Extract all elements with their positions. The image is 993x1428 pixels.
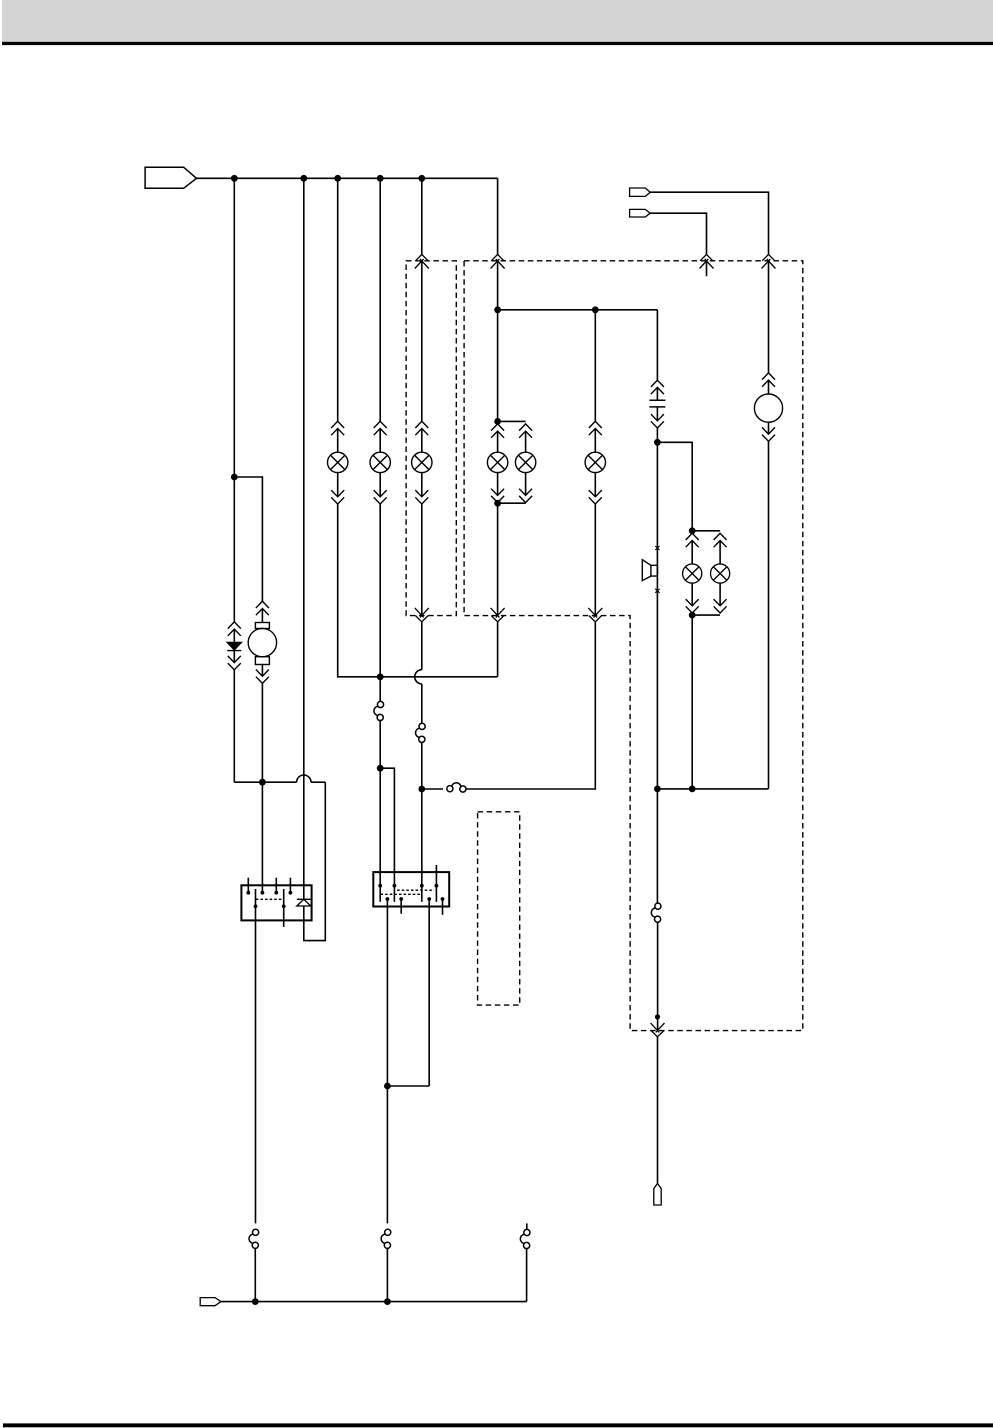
wire top bus bbox=[197, 177, 498, 179]
wire P3 stub bbox=[706, 261, 708, 276]
wire column v9 upper bbox=[656, 310, 658, 400]
wire column v12 bbox=[768, 261, 770, 394]
relay K2 pin dot 2 bbox=[393, 884, 397, 888]
wire column v4 lower bbox=[379, 473, 381, 677]
connector C-L5b bbox=[519, 489, 532, 503]
wire v5 lower bbox=[421, 473, 423, 670]
node bus-A bbox=[231, 175, 238, 182]
wire v4 to switch bbox=[379, 677, 381, 702]
wire v5 to switch bbox=[421, 684, 423, 723]
connector C-L7b bbox=[686, 599, 699, 613]
relay K1 pin dot a bbox=[246, 891, 250, 895]
connector C-J1a bbox=[651, 380, 664, 394]
relay K2 pin dot 4 bbox=[435, 884, 439, 888]
wire h7 join bbox=[387, 1085, 429, 1087]
wire v5 into harness bbox=[421, 261, 423, 452]
lamp L1 bbox=[328, 452, 348, 472]
relay K2 pin dot 7 bbox=[427, 897, 431, 901]
switch S4 bbox=[651, 903, 661, 922]
connector crossing C-L3 bbox=[415, 254, 429, 268]
harness dashed box left bbox=[406, 261, 456, 616]
wire S7 to bus bbox=[526, 1248, 528, 1301]
connector crossing C-V6 bbox=[491, 254, 505, 268]
wire branch to pair2 bbox=[657, 442, 692, 531]
connector crossing C-P3 bbox=[700, 254, 714, 268]
lamp L5 bbox=[515, 452, 535, 472]
node v9-dot bbox=[655, 1014, 660, 1019]
wire P2 feed bbox=[650, 192, 768, 254]
relay K1 pin dot c bbox=[274, 891, 278, 895]
node v9-branch bbox=[654, 439, 661, 446]
node v5-branch bbox=[418, 786, 425, 793]
node v4-branch bbox=[377, 765, 384, 772]
connector C-L4b bbox=[491, 489, 504, 503]
switch S1 bbox=[374, 701, 384, 720]
node pair1-top bbox=[494, 418, 501, 425]
connector crossing C-L3c bbox=[415, 608, 429, 622]
wire column v4 upper bbox=[379, 178, 381, 452]
connector C-L1a bbox=[331, 421, 344, 435]
diode D1 bbox=[227, 642, 241, 650]
connector lug P3 bbox=[630, 209, 651, 217]
wire h5-left end bbox=[466, 622, 595, 789]
connector crossing C-P2 bbox=[762, 254, 776, 268]
relay K2 coil dashed b bbox=[381, 893, 421, 895]
switch S5 bbox=[249, 1229, 259, 1248]
wire column v1 upper bbox=[233, 178, 235, 477]
wire column v3 upper bbox=[337, 178, 339, 452]
wire column v5 upper bbox=[421, 178, 423, 254]
connector C-L3b bbox=[415, 490, 428, 504]
lamp L6 bbox=[585, 452, 605, 472]
switch S2 bbox=[416, 723, 426, 742]
node pair2-bottom bbox=[689, 612, 696, 619]
node bus-C bbox=[334, 175, 341, 182]
relay K2 pin dot 3 bbox=[420, 884, 424, 888]
gauge G1 body bbox=[754, 394, 782, 422]
wire v5 switch to node bbox=[421, 742, 423, 789]
relay K1 coil dashed bbox=[256, 898, 283, 900]
connector joint J1 bars bbox=[649, 400, 665, 407]
wire v6 to h3 bbox=[497, 622, 499, 677]
connector C-L1b bbox=[331, 490, 344, 504]
wire pair2 down bbox=[691, 615, 693, 789]
lamp L4 bbox=[487, 452, 507, 472]
wire motor branch bbox=[234, 477, 262, 623]
connector C-D1b bbox=[228, 656, 241, 670]
wire column v8 upper bbox=[594, 310, 596, 452]
lamp L7 bbox=[683, 564, 702, 583]
connector C-L4a bbox=[491, 424, 504, 438]
wire pair1 top link bbox=[498, 420, 526, 422]
node h2-mid bbox=[592, 306, 599, 313]
relay K1 pin e wire bbox=[255, 889, 257, 1223]
wire column v1 lower bbox=[233, 477, 235, 782]
connector C-D1a bbox=[228, 622, 241, 636]
wire hop over h3 bbox=[415, 670, 422, 684]
relay K1 pin stub c bbox=[275, 878, 277, 893]
harness dashed box right (L-shape) bbox=[464, 261, 803, 1031]
wire pair2 right branch bbox=[719, 541, 721, 606]
wire v9 to switch bbox=[656, 789, 658, 903]
header rule bbox=[2, 42, 993, 45]
wire v9 mid bbox=[656, 407, 658, 442]
connector C-L6a bbox=[589, 421, 602, 435]
lamp L2 bbox=[370, 452, 390, 472]
speaker H1 bbox=[642, 560, 657, 581]
switch S3 bbox=[447, 783, 466, 792]
node motor-h4 bbox=[259, 779, 266, 786]
wire v12 lower bbox=[768, 422, 770, 789]
connector C-L7a bbox=[686, 533, 699, 547]
relay K1 pin f wire bbox=[283, 889, 285, 927]
connector C-M1a bbox=[256, 601, 269, 615]
motor M1 body bbox=[248, 628, 276, 656]
connector C-L3a bbox=[415, 421, 428, 435]
relay K1 pin dot b bbox=[261, 891, 265, 895]
wire relay loop bbox=[304, 782, 326, 940]
node bus-B bbox=[300, 175, 307, 182]
connector C-L6b bbox=[589, 490, 602, 504]
relay K2 pin 6 wire bbox=[400, 899, 402, 914]
wire h5-left start bbox=[422, 788, 443, 790]
harness dashed box small bbox=[478, 812, 520, 1005]
node pair1-bottom bbox=[494, 500, 501, 507]
wire v8 lower bbox=[594, 473, 596, 616]
diode D2 in relay K1 bbox=[297, 899, 311, 906]
node bus-E bbox=[418, 175, 425, 182]
node h7 bbox=[384, 1083, 391, 1090]
wire P3 feed bbox=[650, 213, 706, 254]
connector crossing C-V9 bbox=[651, 1023, 665, 1037]
wire S6 to bus bbox=[386, 1248, 388, 1302]
relay K1 pin dot f bbox=[282, 904, 286, 908]
wire pair2 bottom link bbox=[692, 614, 720, 616]
connector C-L8a bbox=[714, 533, 727, 547]
relay K2 pin dot 1 bbox=[378, 884, 382, 888]
node h5-v9 bbox=[654, 786, 661, 793]
wire motor to relay bbox=[261, 665, 263, 892]
node bus2-a bbox=[252, 1298, 259, 1305]
footer rule bbox=[3, 1423, 993, 1427]
connector lug P5 (ground) bbox=[200, 1298, 221, 1306]
connector C-J1b bbox=[651, 414, 664, 428]
wire pair1 bottom link bbox=[498, 502, 526, 504]
lamp L3 bbox=[412, 452, 432, 472]
node v1-tap bbox=[231, 474, 238, 481]
relay K2 pin 8 wire bbox=[442, 899, 444, 915]
relay K2 pin 5 wire bbox=[386, 899, 388, 1223]
connector C-G1b bbox=[762, 427, 775, 441]
switch S6 bbox=[381, 1229, 391, 1248]
relay K2 pin 7 wire bbox=[428, 899, 430, 1086]
relay K2 pin dot 8 bbox=[441, 897, 445, 901]
connector C-G1a bbox=[762, 373, 775, 387]
switch S7 stub bbox=[526, 1223, 528, 1229]
wire horizontal h4 left bbox=[234, 781, 296, 783]
connector mark star-b bbox=[655, 588, 659, 594]
motor M1 brush bottom bbox=[255, 657, 269, 665]
connector mark star-a bbox=[655, 545, 659, 551]
connector crossing C-V6b bbox=[491, 608, 505, 622]
wire h3 bbox=[380, 676, 497, 678]
wire v4 to relay K2 pin1 bbox=[379, 768, 381, 902]
node bus2-b bbox=[384, 1298, 391, 1305]
wire column v3 lower bbox=[338, 473, 381, 677]
wire hop over v2 bbox=[297, 775, 311, 782]
relay K2 pin stub 4 bbox=[435, 865, 437, 902]
relay K1 pin stub a bbox=[247, 878, 249, 893]
wire v4 switch to node bbox=[379, 720, 381, 768]
lamp L8 bbox=[711, 564, 730, 583]
switch S7 bbox=[520, 1229, 530, 1248]
node h3-junction bbox=[377, 673, 384, 680]
wire pair1 left branch bbox=[497, 431, 499, 495]
connector crossing C-V8 bbox=[588, 608, 602, 622]
wire v9 tail bbox=[657, 1037, 659, 1184]
node h2-left bbox=[494, 306, 501, 313]
connector C-L5a bbox=[519, 424, 532, 438]
connector lug P2 bbox=[630, 188, 651, 196]
relay K1 pin dot d bbox=[289, 891, 293, 895]
connector C-M1b bbox=[256, 670, 269, 684]
wire column v2 bbox=[303, 178, 305, 899]
connector C-L8b bbox=[714, 599, 727, 613]
motor M1 brush top bbox=[255, 623, 269, 629]
wire horizontal h4 right bbox=[311, 781, 325, 783]
relay K1 box bbox=[241, 885, 311, 920]
wire v6 to h2 bbox=[497, 261, 499, 310]
wire column v6 top bbox=[497, 178, 499, 254]
wire pair1 right branch bbox=[525, 431, 527, 495]
node h5-v10 bbox=[689, 786, 696, 793]
terminal lug P4 bbox=[654, 1183, 661, 1205]
connector C-L2a bbox=[374, 421, 387, 435]
wire v6 down to crossing bbox=[497, 503, 499, 615]
connector C-L2b bbox=[374, 490, 387, 504]
relay K2 box bbox=[373, 872, 449, 906]
wire bottom bus bbox=[221, 1301, 527, 1303]
wire pair2 left branch bbox=[691, 541, 693, 606]
wire v6 to lamp pair bbox=[497, 310, 499, 422]
wire pair2 top link bbox=[692, 530, 720, 532]
wire S5 to bus bbox=[254, 1248, 256, 1302]
wire v5 to relay K2 pin3 bbox=[421, 789, 423, 902]
relay K2 pin dot 5 bbox=[386, 897, 390, 901]
relay K2 coil dashed a bbox=[397, 889, 434, 891]
node pair2-top bbox=[689, 527, 696, 534]
wire h5 right bbox=[657, 788, 768, 790]
relay K1 pin dot e bbox=[254, 904, 258, 908]
header gray bar bbox=[2, 0, 993, 42]
relay K2 pin dot 6 bbox=[399, 897, 403, 901]
relay K1 pin stub d bbox=[289, 878, 291, 893]
node bus-D bbox=[377, 175, 384, 182]
wire v9 speaker section bbox=[656, 442, 658, 789]
wire v9 below switch bbox=[657, 922, 659, 1031]
wire branch to v16 bbox=[380, 768, 394, 902]
wire h2 bbox=[498, 309, 658, 311]
connector lug P1 (power feed) bbox=[145, 167, 196, 188]
